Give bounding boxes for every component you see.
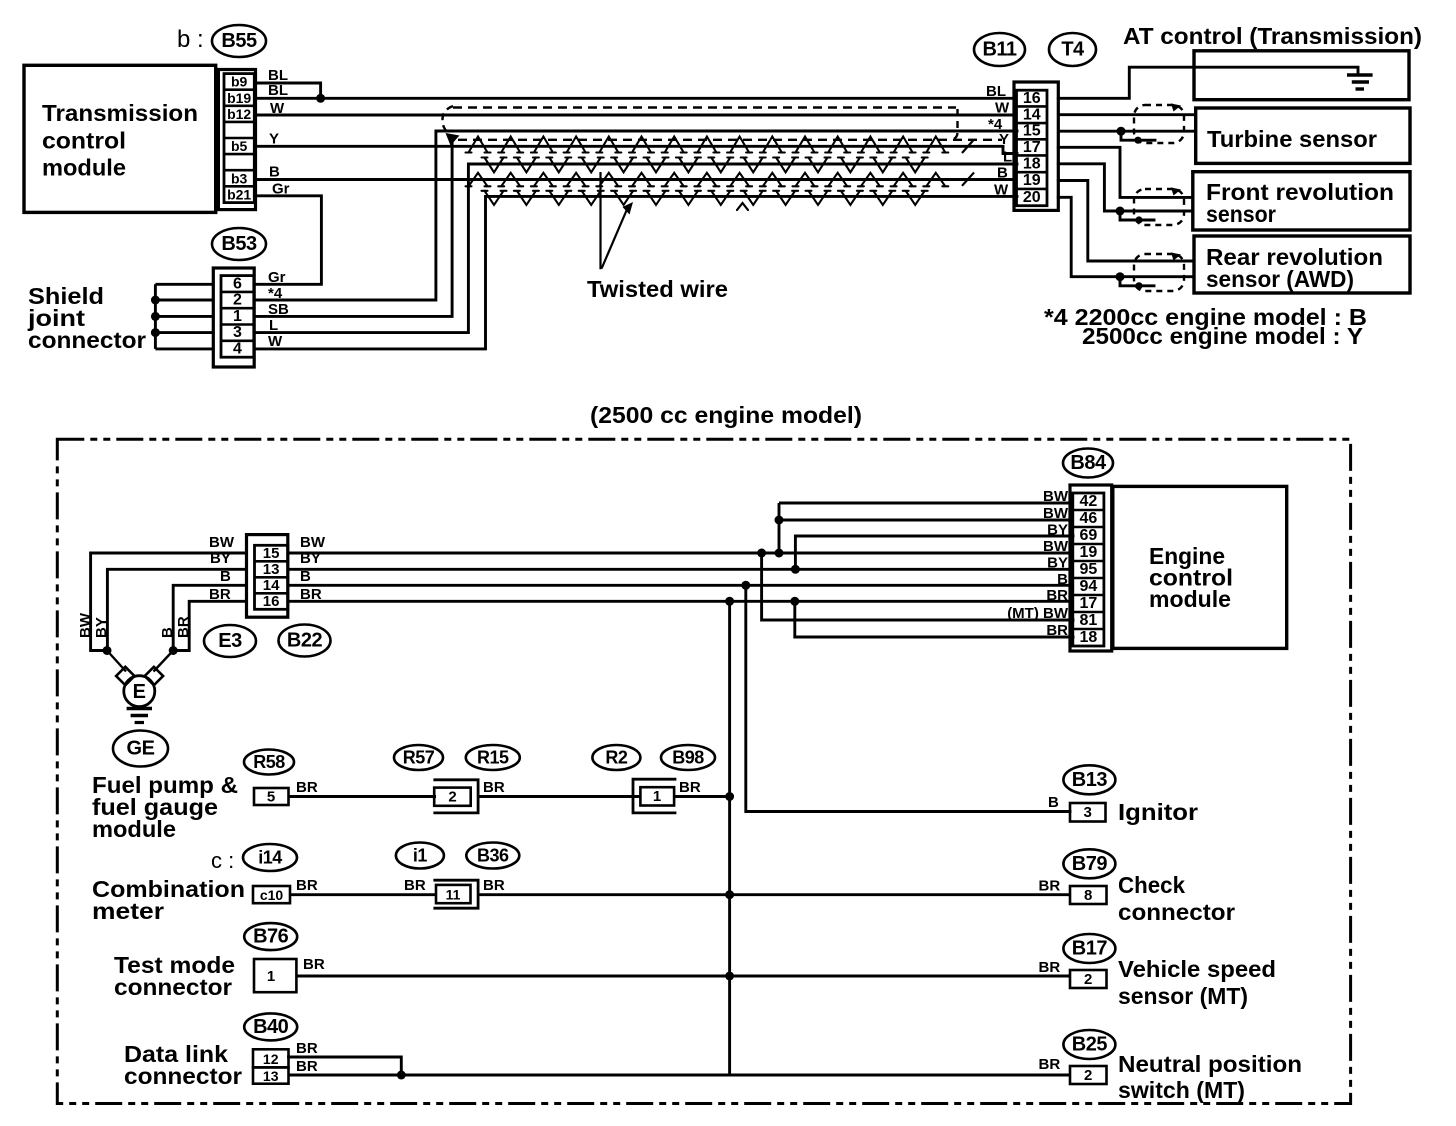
shield dashed line upper bbox=[453, 106, 956, 108]
ground symbol in AT control bbox=[1347, 75, 1373, 89]
node ground junction left bbox=[103, 646, 112, 655]
node bus junction pin2 bbox=[151, 296, 160, 305]
svg-text:BR: BR bbox=[1039, 878, 1061, 895]
svg-text:L: L bbox=[1003, 149, 1012, 166]
svg-text:BR: BR bbox=[483, 779, 505, 796]
wire B53 pin3 left bbox=[155, 331, 213, 334]
ground oval GE bbox=[113, 731, 168, 767]
box Front revolution sensor bbox=[1193, 172, 1410, 230]
svg-text:BR: BR bbox=[296, 779, 318, 796]
connector oval i1 bbox=[396, 843, 444, 869]
svg-text:B40: B40 bbox=[253, 1016, 289, 1038]
connector E3/B22 bbox=[247, 535, 288, 618]
wire b3 B to B11 pin19 bbox=[256, 178, 1018, 181]
svg-text:i1: i1 bbox=[413, 846, 428, 866]
svg-text:94: 94 bbox=[1079, 578, 1097, 595]
svg-text:B76: B76 bbox=[253, 926, 289, 948]
wire B53 shield bus bbox=[154, 284, 157, 349]
svg-text:14: 14 bbox=[263, 577, 280, 594]
wire B11 pin17 to front sensor bbox=[1058, 147, 1193, 197]
dashed frame 2500cc model bbox=[57, 439, 1350, 1103]
svg-text:Transmission: Transmission bbox=[42, 100, 198, 126]
wire BY to ground node bbox=[107, 569, 246, 650]
wire B11 pin16 to AT control ground bbox=[1058, 67, 1358, 98]
svg-text:BR: BR bbox=[483, 877, 505, 894]
svg-text:BW: BW bbox=[300, 534, 326, 551]
svg-text:Gr: Gr bbox=[268, 269, 286, 286]
label Vehicle speed sensor (MT) bbox=[1118, 956, 1276, 1009]
svg-text:42: 42 bbox=[1079, 493, 1097, 510]
box AT control bbox=[1194, 51, 1409, 100]
twist marks row1 (shield/Y pair) bbox=[466, 137, 949, 153]
svg-text:17: 17 bbox=[1079, 595, 1097, 612]
box Turbine sensor bbox=[1196, 108, 1410, 163]
connector oval T4 bbox=[1049, 33, 1096, 66]
note *4 engine models bbox=[1044, 304, 1367, 349]
svg-text:R58: R58 bbox=[253, 752, 285, 772]
svg-text:Turbine sensor: Turbine sensor bbox=[1207, 126, 1377, 152]
node BY branch pin69 bbox=[791, 565, 800, 574]
node data link junction bbox=[397, 1071, 406, 1080]
svg-text:15: 15 bbox=[1023, 123, 1041, 140]
connector B11/T4 bbox=[1014, 82, 1058, 210]
svg-text:B17: B17 bbox=[1072, 938, 1108, 960]
svg-text:R57: R57 bbox=[403, 748, 435, 768]
wire data link pin13 to neutral switch bbox=[289, 1074, 1071, 1077]
wire B53 pin3 L to B11 pin18 bbox=[254, 164, 1017, 333]
svg-text:95: 95 bbox=[1079, 561, 1097, 578]
wire i1/B36 to check connector bbox=[478, 893, 1070, 896]
E stud left bbox=[116, 667, 134, 685]
svg-text:2500cc engine model : Y: 2500cc engine model : Y bbox=[1082, 323, 1363, 349]
svg-text:15: 15 bbox=[263, 545, 280, 562]
svg-text:B25: B25 bbox=[1072, 1034, 1108, 1056]
wire rear shield drain bbox=[1120, 277, 1154, 286]
svg-text:sensor (MT): sensor (MT) bbox=[1118, 983, 1248, 1009]
svg-text:B36: B36 bbox=[477, 846, 509, 866]
ground bars bbox=[127, 709, 152, 723]
svg-text:B53: B53 bbox=[221, 233, 257, 255]
svg-text:BR: BR bbox=[404, 877, 426, 894]
wire B E3 pin14 to ECM pin94 bbox=[288, 584, 1073, 587]
ground E circle bbox=[124, 676, 155, 707]
wire to ECM pin42 BW bbox=[779, 502, 1073, 505]
node ground junction right bbox=[169, 646, 178, 655]
svg-text:b5: b5 bbox=[231, 138, 248, 154]
wire B53 pin1 SB shield drain bbox=[254, 143, 452, 316]
svg-text:R15: R15 bbox=[477, 748, 509, 768]
callout arrowhead bbox=[623, 202, 634, 215]
wire BR trunk vertical bbox=[728, 601, 731, 1075]
svg-text:meter: meter bbox=[92, 898, 164, 924]
wire B53 pin4 left bbox=[155, 347, 213, 350]
svg-text:b9: b9 bbox=[231, 74, 248, 90]
shield capsule rear bbox=[1134, 254, 1184, 291]
pin box 2 (neutral switch) bbox=[1070, 1066, 1107, 1084]
box Rear revolution sensor (AWD) bbox=[1194, 236, 1410, 293]
wire B to ground node bbox=[173, 585, 246, 650]
node trunk check row bbox=[725, 890, 734, 899]
connector oval B22 bbox=[279, 625, 331, 657]
svg-text:BR: BR bbox=[296, 1058, 318, 1075]
node trunk fuel row bbox=[725, 792, 734, 801]
node front drain dot bbox=[1135, 216, 1142, 223]
connector oval B17 bbox=[1063, 934, 1115, 963]
svg-text:BR: BR bbox=[1039, 1056, 1061, 1073]
svg-text:2: 2 bbox=[1084, 1067, 1092, 1084]
callout arrow diagonal bbox=[602, 207, 628, 269]
pin box c10 bbox=[253, 886, 290, 903]
svg-text:16: 16 bbox=[1023, 90, 1041, 107]
connector oval B55 bbox=[212, 25, 266, 57]
svg-text:3: 3 bbox=[1084, 804, 1092, 821]
wire branch to ECM pin81 (MT)BW bbox=[762, 553, 1073, 620]
wire B11 pin19 to rear sensor bbox=[1058, 181, 1194, 262]
wire diagonal to E stud left bbox=[107, 651, 126, 672]
svg-text:18: 18 bbox=[1079, 629, 1097, 646]
box Transmission control module bbox=[24, 65, 216, 212]
wire turbine shield drain bbox=[1121, 131, 1155, 140]
pin boxes 12/13 (data link) bbox=[253, 1049, 289, 1084]
joint connector i1/B36 bbox=[435, 880, 478, 908]
svg-text:18: 18 bbox=[1023, 155, 1041, 172]
connector oval R15 bbox=[466, 745, 520, 770]
svg-text:BL: BL bbox=[986, 83, 1006, 100]
shield drain arrowhead bbox=[446, 133, 460, 146]
svg-text:17: 17 bbox=[1023, 139, 1041, 156]
shield dashed arc left end bbox=[442, 106, 453, 133]
svg-text:BL: BL bbox=[268, 82, 288, 99]
svg-text:2: 2 bbox=[1084, 971, 1092, 988]
svg-text:BY: BY bbox=[93, 617, 110, 638]
svg-text:Check: Check bbox=[1118, 872, 1185, 898]
svg-text:connector: connector bbox=[1118, 899, 1235, 925]
svg-text:4: 4 bbox=[233, 341, 242, 358]
svg-text:3: 3 bbox=[233, 324, 242, 341]
svg-text:BR: BR bbox=[296, 1040, 318, 1057]
E stud right bbox=[145, 667, 163, 685]
svg-text:B84: B84 bbox=[1070, 452, 1107, 474]
connector B84 (ECM) bbox=[1070, 485, 1112, 651]
svg-text:connector: connector bbox=[114, 974, 232, 1000]
svg-text:13: 13 bbox=[263, 1068, 279, 1084]
svg-text:BR: BR bbox=[679, 779, 701, 796]
twist marks row3 (B wire) bbox=[466, 173, 949, 187]
label Neutral position switch (MT) bbox=[1118, 1051, 1302, 1103]
twist marks row4 (W wire) bbox=[482, 191, 928, 205]
wire B11 pin20 to rear sensor bbox=[1058, 197, 1194, 276]
connector oval B79 bbox=[1063, 849, 1115, 878]
svg-text:81: 81 bbox=[1079, 612, 1097, 629]
connector oval R58 bbox=[244, 750, 294, 775]
wire branch to ECM pin69 BY bbox=[795, 536, 1073, 569]
svg-text:19: 19 bbox=[1079, 544, 1097, 561]
node BR branch pin18 bbox=[790, 597, 799, 606]
svg-text:16: 16 bbox=[263, 593, 280, 610]
connector oval B13 bbox=[1063, 765, 1115, 794]
wire front shield drain bbox=[1120, 211, 1154, 220]
wire BW E3 pin15 to ECM pin19 bbox=[288, 552, 1073, 555]
twist marks row2 (L wire) bbox=[482, 158, 928, 173]
svg-text:Neutral position: Neutral position bbox=[1118, 1051, 1302, 1077]
svg-text:module: module bbox=[92, 816, 176, 842]
svg-text:B22: B22 bbox=[287, 630, 323, 652]
shield capsule rear arrow bbox=[1171, 253, 1181, 261]
wire B53 pin1 left bbox=[155, 315, 213, 318]
label Check connector bbox=[1118, 872, 1235, 925]
connector oval E3 bbox=[204, 625, 256, 657]
shield capsule front arrow bbox=[1171, 188, 1181, 196]
svg-text:W: W bbox=[994, 182, 1009, 199]
wire data link pin12 bbox=[289, 1057, 402, 1075]
svg-text:BW: BW bbox=[209, 534, 235, 551]
pin box 8 (check connector) bbox=[1070, 886, 1107, 904]
wire fuel pump to R57/R15 bbox=[289, 795, 437, 798]
node junction b9/b19 bbox=[316, 94, 325, 103]
node bus junction pin3 bbox=[151, 328, 160, 337]
node pin20 shield tap bbox=[1116, 272, 1125, 281]
wire B11 pin18 to front sensor bbox=[1058, 164, 1193, 211]
pin box 5 (fuel pump) bbox=[254, 788, 289, 806]
svg-text:R2: R2 bbox=[605, 748, 627, 768]
wire BY E3 pin13 to ECM pin95 bbox=[288, 568, 1073, 571]
connector oval R57 bbox=[394, 745, 443, 770]
svg-text:module: module bbox=[42, 155, 126, 181]
svg-text:switch (MT): switch (MT) bbox=[1118, 1077, 1245, 1103]
node pin18 shield tap bbox=[1116, 207, 1125, 216]
wire B53 pin6 left bbox=[155, 283, 213, 286]
svg-text:b19: b19 bbox=[227, 90, 251, 106]
connector oval B11 bbox=[974, 33, 1025, 66]
node rear drain dot bbox=[1135, 282, 1142, 289]
connector B53 (shield joint) bbox=[213, 268, 254, 367]
connector oval R2 bbox=[592, 745, 640, 770]
node pin15 shield tap bbox=[1117, 127, 1126, 136]
svg-text:b12: b12 bbox=[227, 106, 251, 122]
connector oval B84 bbox=[1063, 449, 1113, 478]
svg-text:12: 12 bbox=[263, 1051, 279, 1067]
shield dashed tail right bbox=[950, 109, 958, 140]
svg-text:E: E bbox=[133, 681, 146, 703]
shield capsule turbine arrow bbox=[1171, 104, 1181, 112]
svg-text:c :: c : bbox=[211, 848, 234, 873]
svg-text:connector: connector bbox=[28, 327, 146, 353]
wire branch vertical pins42/46 bbox=[778, 503, 781, 553]
callout line vertical bbox=[599, 172, 601, 269]
node BW branch pins42/46 bbox=[775, 549, 784, 558]
node turbine drain dot bbox=[1134, 137, 1141, 144]
connector oval B25 bbox=[1063, 1030, 1115, 1059]
svg-text:BR: BR bbox=[175, 616, 192, 638]
connector oval B53 bbox=[212, 228, 266, 260]
pin box 3 (ignitor) bbox=[1070, 803, 1106, 822]
svg-text:19: 19 bbox=[1023, 172, 1041, 189]
svg-text:AT control (Transmission): AT control (Transmission) bbox=[1123, 23, 1422, 49]
svg-text:Y: Y bbox=[999, 131, 1009, 148]
twist slash row1 bbox=[962, 140, 974, 154]
svg-text:(2500 cc engine model): (2500 cc engine model) bbox=[590, 402, 862, 428]
shield dashed line lower (twisted) bbox=[458, 139, 1002, 141]
label Test mode connector bbox=[114, 952, 235, 1000]
wire branch to ECM pin18 BR bbox=[795, 601, 1073, 637]
connector B55 (TCM) bbox=[218, 70, 255, 210]
label Combination meter bbox=[92, 876, 245, 924]
svg-text:B: B bbox=[1048, 794, 1059, 811]
svg-text:E3: E3 bbox=[218, 630, 242, 652]
svg-text:b3: b3 bbox=[231, 170, 248, 186]
svg-text:1: 1 bbox=[653, 788, 661, 805]
wire test mode to vehicle speed bbox=[296, 975, 1070, 978]
svg-text:B: B bbox=[997, 165, 1008, 182]
svg-text:BR: BR bbox=[1039, 959, 1061, 976]
svg-text:13: 13 bbox=[263, 561, 280, 578]
node BW branch pin81 bbox=[757, 549, 766, 558]
svg-text:11: 11 bbox=[446, 887, 461, 903]
shield capsule front bbox=[1134, 189, 1184, 225]
wire B11 pin15 to turbine sensor bbox=[1058, 130, 1195, 133]
svg-text:20: 20 bbox=[1023, 189, 1041, 206]
svg-text:B79: B79 bbox=[1072, 853, 1108, 875]
label Shield joint connector bbox=[27, 283, 146, 353]
svg-text:sensor: sensor bbox=[1206, 201, 1276, 227]
wire b9 BL bbox=[256, 83, 321, 98]
svg-text:Vehicle speed: Vehicle speed bbox=[1118, 956, 1276, 982]
svg-text:5: 5 bbox=[267, 789, 275, 806]
wire B53 pin2 *4 to B11 pin15 bbox=[254, 131, 1017, 300]
shield capsule turbine bbox=[1134, 105, 1184, 143]
svg-text:B11: B11 bbox=[982, 39, 1016, 61]
svg-text:B13: B13 bbox=[1072, 769, 1108, 791]
pin box 2 (vehicle speed) bbox=[1070, 970, 1107, 988]
svg-text:46: 46 bbox=[1079, 510, 1097, 527]
svg-text:69: 69 bbox=[1079, 527, 1097, 544]
node bus junction pin1 bbox=[151, 312, 160, 321]
connector oval B36 bbox=[466, 843, 519, 869]
joint connector R2/B98 bbox=[633, 779, 675, 813]
label Fuel pump & fuel gauge module bbox=[92, 772, 238, 842]
connector oval i14 bbox=[243, 844, 297, 871]
svg-text:BR: BR bbox=[303, 956, 325, 973]
stray caret under row4 bbox=[737, 203, 748, 210]
svg-text:1: 1 bbox=[267, 968, 275, 985]
wire R57/R15 to R2/B98 bbox=[478, 795, 640, 798]
wire B11 pin14 to turbine sensor bbox=[1058, 113, 1195, 116]
wire b12 W to B11 pin14 bbox=[256, 114, 1018, 117]
wire BR E3 pin16 to ECM pin17 bbox=[288, 600, 1073, 603]
wire c10 to i1/B36 bbox=[290, 893, 437, 896]
node B branch ignitor bbox=[741, 581, 750, 590]
svg-text:6: 6 bbox=[233, 275, 242, 292]
svg-text:i14: i14 bbox=[258, 848, 282, 868]
wire BR to ground node bbox=[173, 601, 246, 650]
wire B53 pin4 W to B11 pin20 bbox=[254, 196, 1017, 349]
pin box 1 (test mode) bbox=[254, 959, 296, 992]
twist slash row3 bbox=[962, 173, 974, 186]
svg-text:T4: T4 bbox=[1061, 39, 1085, 61]
svg-text:sensor (AWD): sensor (AWD) bbox=[1206, 266, 1354, 292]
svg-text:b21: b21 bbox=[227, 186, 251, 202]
joint connector R57/R15 bbox=[434, 780, 478, 813]
svg-text:B: B bbox=[159, 627, 176, 638]
connector oval B76 bbox=[244, 923, 297, 950]
wire diagonal to E stud right bbox=[154, 651, 174, 672]
svg-text:1: 1 bbox=[233, 308, 242, 325]
svg-text:B55: B55 bbox=[221, 30, 257, 52]
connector oval B98 bbox=[661, 745, 715, 770]
svg-text:BW: BW bbox=[77, 612, 94, 638]
svg-text:connector: connector bbox=[124, 1063, 242, 1089]
label Data link connector bbox=[124, 1041, 242, 1089]
node BR branch trunk bbox=[725, 597, 734, 606]
wire B53 pin2 left bbox=[155, 299, 213, 302]
wire branch to ignitor B bbox=[746, 585, 1070, 811]
svg-text:BR: BR bbox=[296, 877, 318, 894]
node pin46 junction bbox=[775, 516, 784, 525]
svg-text:Twisted wire: Twisted wire bbox=[587, 276, 728, 302]
svg-text:W: W bbox=[995, 100, 1010, 117]
wire b19 BL to B11 pin16 bbox=[256, 97, 1018, 100]
svg-text:GE: GE bbox=[127, 738, 155, 760]
svg-text:c10: c10 bbox=[260, 887, 284, 903]
wire R2/B98 to trunk bbox=[674, 795, 730, 798]
box Engine control module bbox=[1113, 486, 1287, 648]
svg-text:B98: B98 bbox=[672, 748, 704, 768]
connector oval B40 bbox=[244, 1013, 297, 1040]
svg-text:B: B bbox=[269, 164, 280, 181]
node trunk speed row bbox=[725, 972, 734, 981]
wire BW to ground node bbox=[91, 553, 247, 651]
svg-text:Ignitor: Ignitor bbox=[1118, 799, 1198, 825]
svg-text:2: 2 bbox=[448, 789, 456, 806]
svg-text:8: 8 bbox=[1084, 887, 1092, 904]
wire b21 Gr to B53 pin6 bbox=[254, 196, 321, 284]
svg-text:14: 14 bbox=[1023, 106, 1041, 123]
svg-text:control: control bbox=[42, 128, 126, 154]
svg-text:b :: b : bbox=[177, 26, 204, 53]
wire b5 Y to B11 pin17 bbox=[256, 146, 1018, 153]
svg-text:module: module bbox=[1149, 586, 1231, 612]
wire to ECM pin46 BW bbox=[779, 519, 1073, 522]
svg-text:2: 2 bbox=[233, 292, 242, 309]
